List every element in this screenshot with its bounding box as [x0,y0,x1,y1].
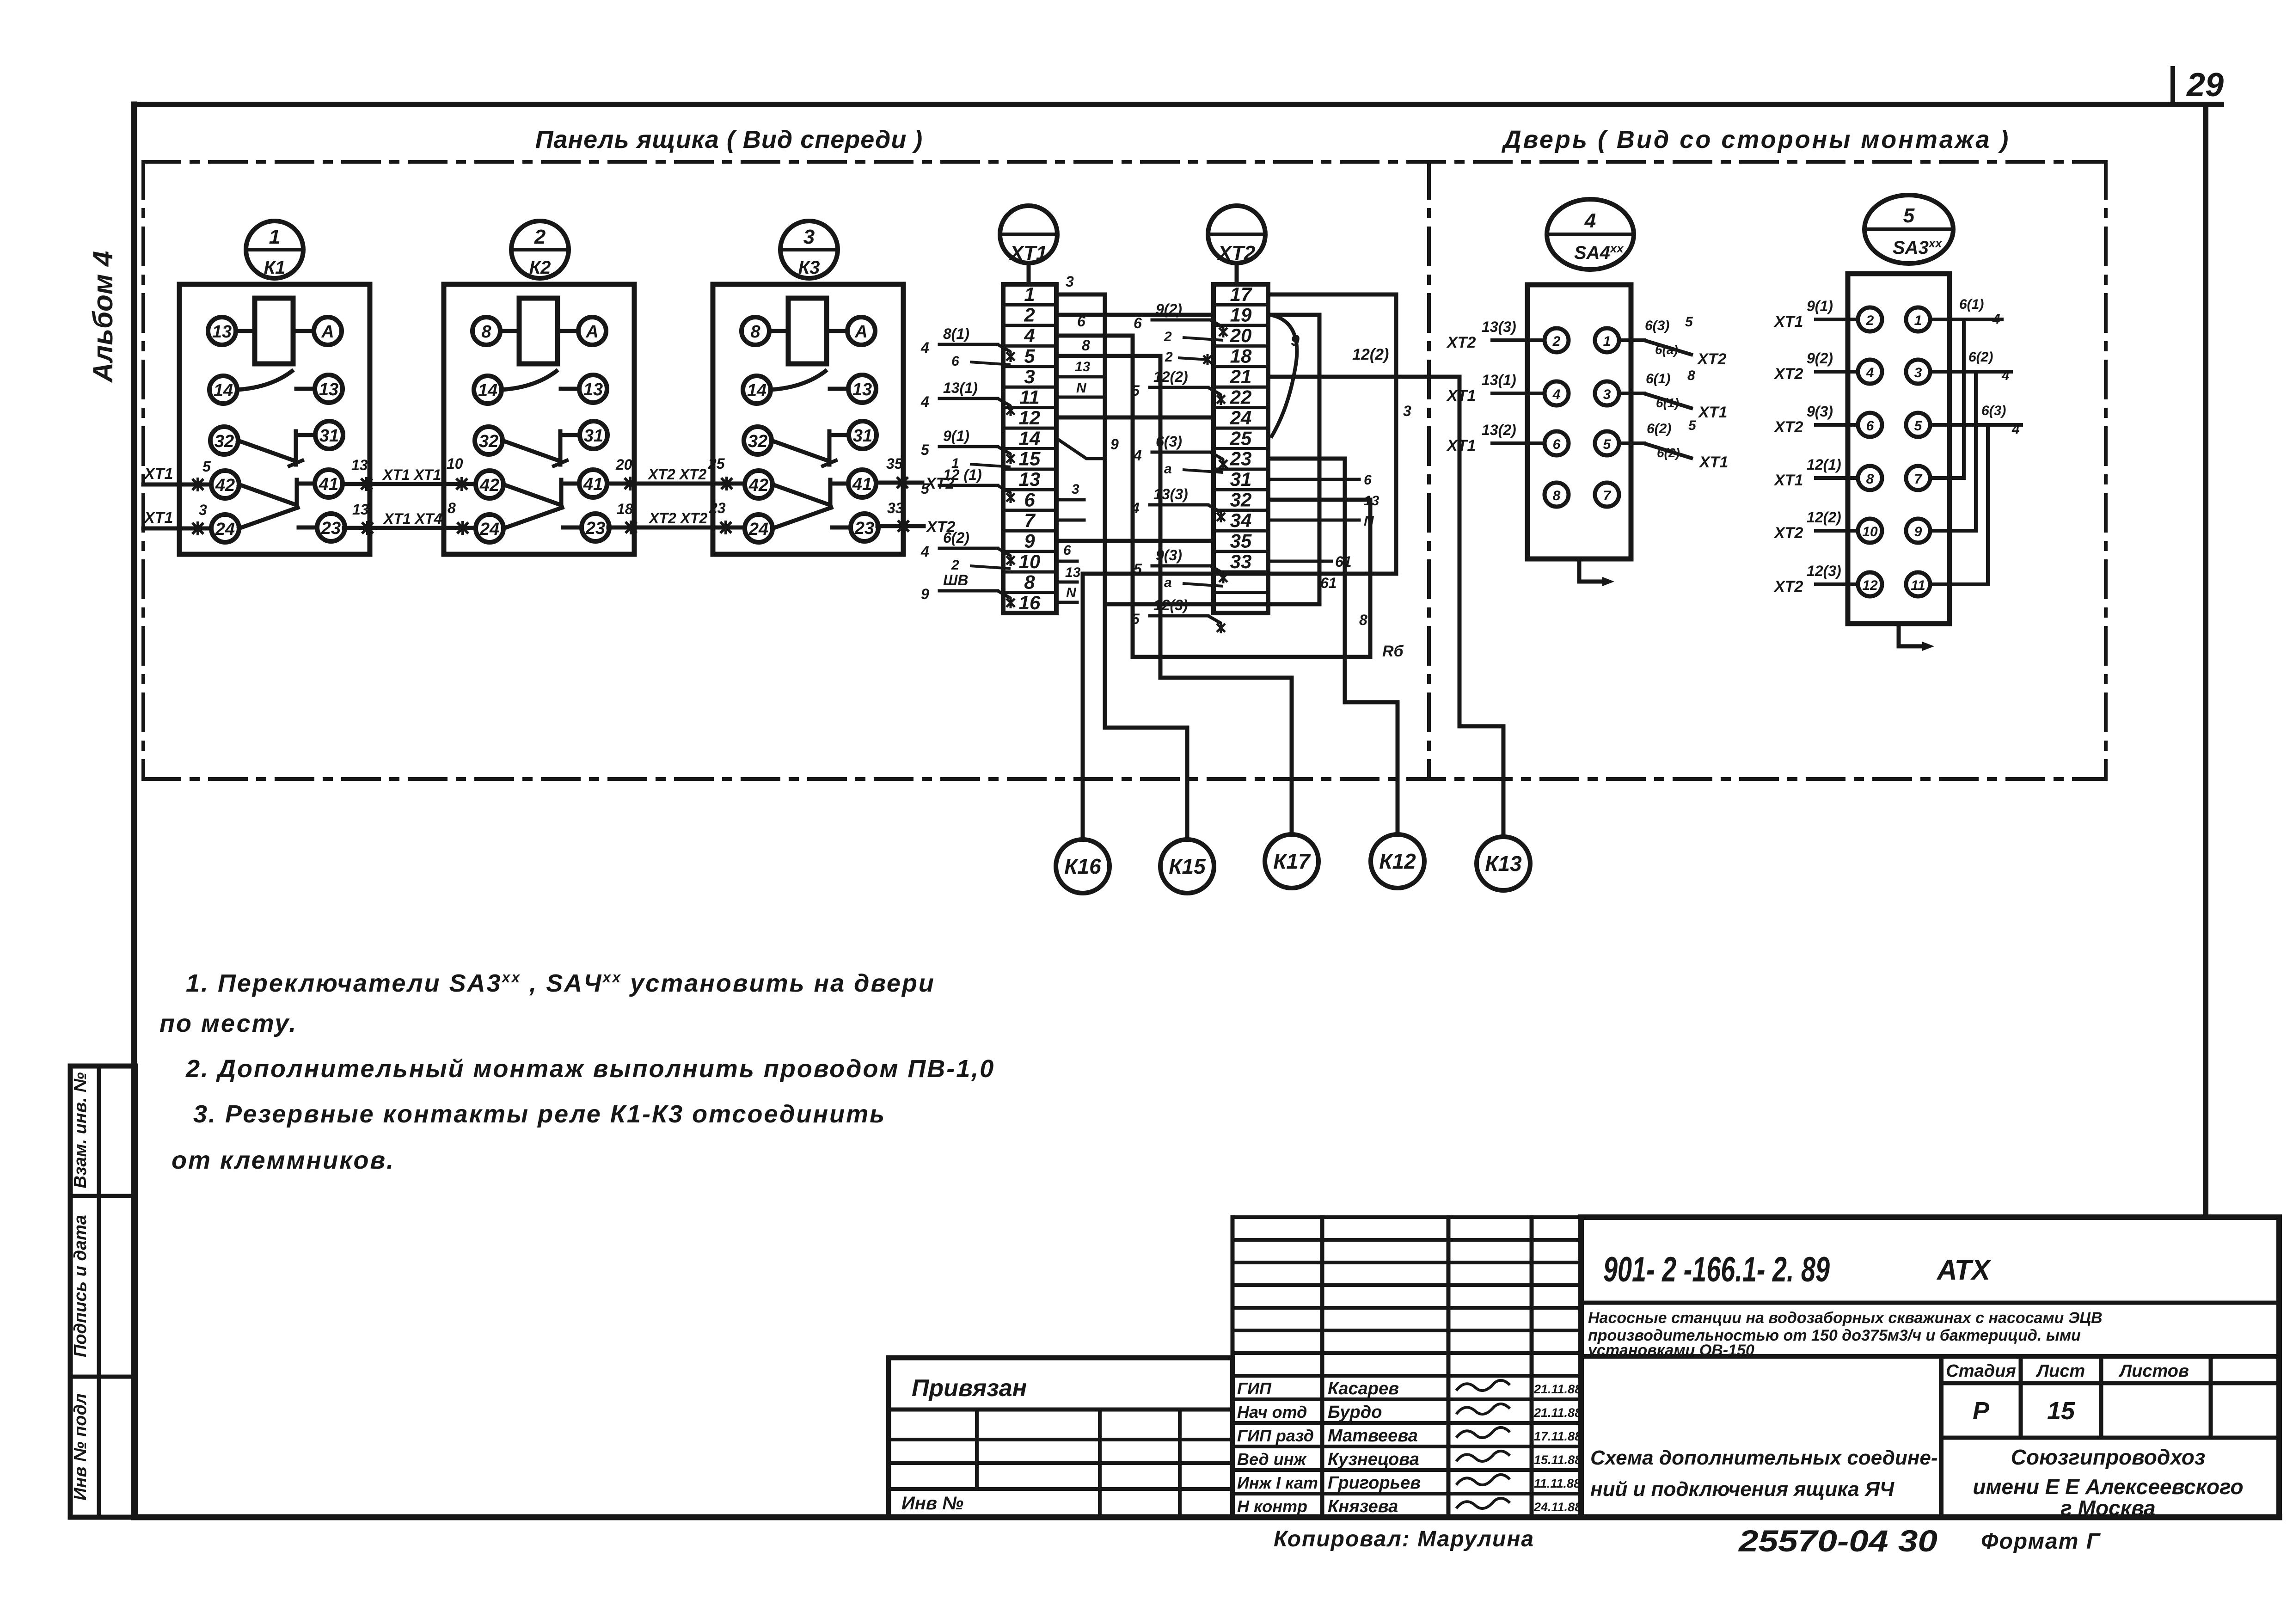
svg-text:6: 6 [1063,543,1071,558]
svg-text:4: 4 [2001,368,2010,383]
svg-text:3: 3 [1914,365,1922,380]
svg-text:8: 8 [1024,571,1035,593]
svg-text:Взам. инв. №: Взам. инв. № [71,1072,90,1189]
svg-text:ХТ2 ХТ2: ХТ2 ХТ2 [647,466,706,483]
svg-text:20: 20 [1230,325,1252,346]
svg-text:3. Резервные контакты рел: 3. Резервные контакты реле К1-К3 отсоеди… [193,1100,886,1128]
svg-text:901- 2 -166.1- 2. 89: 901- 2 -166.1- 2. 89 [1603,1250,1830,1289]
svg-text:по месту.: по месту. [159,1010,297,1037]
svg-text:32: 32 [215,432,234,451]
svg-text:Касарев: Касарев [1328,1379,1399,1398]
svg-text:35: 35 [1230,530,1252,552]
svg-text:2: 2 [1024,304,1035,326]
svg-text:Дверь ( Вид со стороны мон: Дверь ( Вид со стороны монтажа ) [1502,126,2011,153]
svg-text:33: 33 [1230,551,1252,572]
svg-text:К3: К3 [798,257,820,278]
svg-text:1. Переключатели SA3хх , SA: 1. Переключатели SA3хх , SAЧхх установит… [186,969,935,997]
svg-text:8: 8 [1687,368,1695,383]
svg-text:12(2): 12(2) [1807,509,1841,526]
svg-text:ХТ2: ХТ2 [1773,578,1803,595]
svg-text:24: 24 [748,520,768,539]
svg-text:1: 1 [1914,313,1922,328]
svg-text:АТХ: АТХ [1936,1254,1992,1286]
svg-text:Князева: Князева [1328,1497,1398,1516]
svg-text:8: 8 [1082,337,1090,354]
svg-text:6(3): 6(3) [1645,318,1669,333]
svg-text:18: 18 [617,501,633,517]
svg-text:6(3): 6(3) [1981,403,2006,418]
svg-text:ХТ1: ХТ1 [143,465,173,483]
svg-text:24.11.88: 24.11.88 [1533,1500,1582,1514]
svg-text:Матвеева: Матвеева [1328,1426,1418,1446]
svg-text:установками ОВ-150: установками ОВ-150 [1587,1342,1754,1359]
svg-text:41: 41 [852,475,872,494]
svg-text:К2: К2 [529,257,551,278]
svg-text:13: 13 [583,380,603,399]
svg-text:9(1): 9(1) [943,428,969,444]
svg-text:9: 9 [1914,524,1922,539]
svg-text:Подпись и дата: Подпись и дата [71,1215,90,1357]
svg-text:от клеммников.: от клеммников. [172,1146,395,1174]
svg-text:Н контр: Н контр [1237,1497,1307,1516]
svg-text:9: 9 [1291,332,1300,349]
svg-text:21.11.88: 21.11.88 [1533,1406,1582,1420]
svg-text:11: 11 [1911,578,1925,593]
svg-text:13(1): 13(1) [1482,372,1516,388]
svg-text:61: 61 [1320,575,1337,591]
svg-text:4: 4 [920,393,929,410]
svg-text:15.11.88: 15.11.88 [1534,1453,1582,1467]
svg-text:8: 8 [1359,612,1367,628]
svg-text:12(2): 12(2) [1352,346,1389,363]
svg-text:31: 31 [853,426,872,446]
svg-text:Союзгипроводхоз: Союзгипроводхоз [2011,1445,2206,1469]
svg-text:2: 2 [1164,329,1172,344]
svg-text:6(2): 6(2) [943,529,969,546]
svg-text:а: а [1164,575,1172,590]
svg-text:4: 4 [920,339,929,356]
svg-text:24: 24 [1230,407,1252,429]
svg-text:Насосные станции на водозаборн: Насосные станции на водозаборных скважин… [1588,1309,2103,1327]
svg-text:Нач отд: Нач отд [1237,1403,1307,1422]
svg-text:А: А [321,322,334,342]
svg-text:1: 1 [1024,283,1035,305]
svg-text:имени Е Е Алексеевского: имени Е Е Алексеевского [1973,1475,2243,1499]
svg-text:8: 8 [448,500,456,516]
svg-text:6(2): 6(2) [1657,446,1680,460]
svg-text:К17: К17 [1273,849,1311,873]
svg-text:13: 13 [1075,359,1091,374]
svg-text:4: 4 [920,543,929,560]
svg-text:К15: К15 [1169,854,1206,878]
svg-text:Инв №: Инв № [901,1493,963,1514]
svg-text:Р: Р [1973,1397,1990,1425]
svg-text:ХТ1: ХТ1 [1446,437,1476,454]
svg-text:13: 13 [351,457,368,473]
svg-text:Инв № подл: Инв № подл [71,1393,90,1500]
svg-text:3: 3 [803,226,815,248]
svg-text:5: 5 [1603,437,1612,452]
svg-text:Панель ящика ( Вид спереди ): Панель ящика ( Вид спереди ) [535,126,923,153]
svg-text:ХТ1: ХТ1 [1773,313,1803,331]
svg-text:12: 12 [1019,407,1041,429]
svg-text:21: 21 [1230,366,1252,387]
svg-text:41: 41 [583,475,603,494]
svg-text:ХТ1: ХТ1 [1446,387,1476,404]
svg-text:23: 23 [709,500,726,516]
svg-text:3: 3 [1066,273,1074,290]
svg-text:6: 6 [1024,489,1035,511]
svg-text:9(3): 9(3) [1807,403,1833,420]
svg-text:3: 3 [1403,403,1411,419]
svg-text:3: 3 [1072,482,1079,497]
svg-text:К13: К13 [1485,852,1522,876]
svg-text:11: 11 [1019,386,1040,408]
svg-text:15: 15 [1019,448,1041,470]
svg-text:13: 13 [212,322,232,342]
svg-text:Стадия: Стадия [1946,1361,2016,1381]
svg-text:5: 5 [921,480,930,497]
svg-text:К1: К1 [264,257,286,278]
svg-text:6: 6 [951,354,959,369]
svg-text:Формат Г: Формат Г [1981,1529,2101,1554]
svg-text:Привязан: Привязан [912,1375,1027,1402]
svg-text:12(3): 12(3) [1807,563,1841,579]
svg-text:29: 29 [2186,67,2224,104]
svg-text:13: 13 [352,501,369,518]
svg-text:2. Дополнительный монтаж в: 2. Дополнительный монтаж выполнить прово… [185,1055,995,1083]
svg-text:3: 3 [1024,366,1035,387]
svg-text:13: 13 [1065,565,1081,580]
svg-text:К16: К16 [1064,854,1101,878]
svg-text:К12: К12 [1379,849,1416,873]
svg-text:ХТ2: ХТ2 [1773,524,1803,542]
svg-text:Григорьев: Григорьев [1328,1473,1421,1493]
svg-text:25: 25 [1230,427,1252,449]
svg-text:Кузнецова: Кузнецова [1328,1450,1419,1469]
svg-text:42: 42 [479,476,499,495]
svg-text:23: 23 [585,519,605,538]
svg-text:35: 35 [886,455,903,472]
svg-text:31: 31 [584,426,603,446]
svg-text:13: 13 [852,380,872,399]
svg-text:24: 24 [479,520,499,539]
svg-text:8(1): 8(1) [943,325,969,342]
svg-text:Схема дополнительных соедине-: Схема дополнительных соедине- [1590,1446,1938,1469]
svg-text:20: 20 [615,456,632,473]
svg-text:2: 2 [534,226,546,248]
svg-text:9(1): 9(1) [1807,298,1833,314]
svg-text:10: 10 [1019,551,1041,572]
svg-text:3: 3 [1603,387,1611,402]
svg-text:32: 32 [479,432,498,451]
svg-text:18: 18 [1230,345,1252,367]
svg-text:ХТ2: ХТ2 [1697,350,1726,368]
svg-text:6: 6 [1553,437,1561,452]
svg-text:ХТ1 ХТ4: ХТ1 ХТ4 [383,510,442,527]
svg-text:6(1): 6(1) [1646,371,1670,386]
svg-text:5: 5 [921,441,930,458]
svg-text:N: N [1364,514,1374,529]
svg-text:ХТ1 ХТ1: ХТ1 ХТ1 [382,466,441,483]
svg-text:12: 12 [1862,578,1878,593]
svg-text:Копировал: Марулина: Копировал: Марулина [1274,1527,1534,1551]
svg-text:N: N [1066,585,1077,601]
svg-text:А: А [854,322,867,342]
svg-text:А: А [585,322,598,342]
svg-text:9: 9 [1110,436,1119,453]
svg-text:42: 42 [215,476,235,495]
svg-text:9: 9 [921,586,929,602]
svg-text:ний и подключения ящика ЯЧ: ний и подключения ящика ЯЧ [1590,1478,1894,1501]
svg-text:6(1): 6(1) [1959,297,1984,312]
svg-text:4: 4 [1024,325,1035,346]
svg-text:17.11.88: 17.11.88 [1534,1429,1582,1443]
svg-text:4: 4 [1866,365,1874,380]
svg-text:14: 14 [1019,427,1041,449]
svg-text:5: 5 [1024,345,1035,367]
svg-text:Инж I кат: Инж I кат [1237,1473,1318,1492]
svg-text:2: 2 [951,558,959,573]
svg-text:ХТ2: ХТ2 [1446,334,1476,351]
svg-text:14: 14 [478,381,497,400]
svg-text:8: 8 [1866,472,1874,487]
svg-text:Лист: Лист [2035,1361,2085,1381]
svg-text:2: 2 [1165,349,1173,365]
svg-text:12(1): 12(1) [1807,456,1841,473]
svg-text:9: 9 [1024,530,1035,552]
svg-text:ХТ2: ХТ2 [1773,418,1803,436]
svg-text:61: 61 [1335,553,1352,570]
svg-text:ХТ1: ХТ1 [1773,472,1803,489]
svg-text:17: 17 [1230,283,1252,305]
svg-text:12 (1): 12 (1) [943,466,982,483]
svg-text:ХТ1: ХТ1 [1698,453,1728,471]
svg-text:7: 7 [1024,509,1036,531]
svg-text:6(1): 6(1) [1656,396,1679,410]
svg-text:ХТ1: ХТ1 [143,509,173,527]
svg-text:5: 5 [202,458,211,475]
svg-text:6: 6 [1134,315,1142,331]
svg-text:9(2): 9(2) [1807,350,1833,367]
svg-text:ШВ: ШВ [943,572,968,588]
svg-text:4: 4 [1584,209,1596,232]
svg-text:13(3): 13(3) [1482,319,1516,335]
svg-text:6(2): 6(2) [1647,421,1671,436]
svg-text:ГИП: ГИП [1237,1379,1272,1398]
svg-text:5: 5 [1914,418,1923,434]
svg-text:10: 10 [1862,524,1878,539]
svg-text:6: 6 [1364,472,1372,488]
svg-text:2: 2 [1552,334,1561,349]
svg-text:ГИП разд: ГИП разд [1237,1426,1314,1445]
svg-text:5: 5 [1685,314,1693,330]
svg-text:13: 13 [1364,493,1379,509]
svg-text:14: 14 [214,381,233,400]
svg-text:5: 5 [1688,418,1697,433]
svg-text:13: 13 [319,380,338,399]
svg-text:8: 8 [750,322,760,342]
svg-text:14: 14 [747,381,766,400]
svg-text:31: 31 [319,426,339,446]
svg-text:4: 4 [1992,312,2000,327]
svg-text:32: 32 [1230,489,1252,511]
svg-text:23: 23 [1230,448,1252,470]
svg-text:Вед инж: Вед инж [1237,1450,1307,1469]
svg-text:22: 22 [1230,386,1252,408]
svg-text:23: 23 [321,519,341,538]
svg-text:13(1): 13(1) [943,380,978,396]
svg-text:Листов: Листов [2118,1361,2189,1381]
svg-text:4: 4 [1552,387,1561,402]
svg-text:1: 1 [269,226,280,248]
svg-text:41: 41 [319,475,338,494]
svg-text:а: а [1164,461,1172,477]
svg-text:10: 10 [447,455,463,472]
svg-text:32: 32 [748,432,767,451]
svg-text:6: 6 [1077,313,1085,330]
svg-text:5: 5 [1903,204,1915,227]
svg-text:21.11.88: 21.11.88 [1533,1382,1582,1396]
svg-text:19: 19 [1230,304,1252,326]
svg-text:7: 7 [1603,488,1612,503]
svg-text:16: 16 [1019,592,1041,613]
svg-text:3: 3 [199,502,207,518]
svg-text:11.11.88: 11.11.88 [1534,1477,1581,1490]
svg-text:8: 8 [1553,488,1561,503]
svg-text:13(2): 13(2) [1482,422,1516,438]
svg-text:1: 1 [1603,334,1611,349]
svg-text:г Москва: г Москва [2060,1496,2155,1520]
svg-text:Альбом 4: Альбом 4 [87,251,118,384]
svg-text:6: 6 [1866,418,1874,434]
svg-text:8: 8 [481,322,491,342]
svg-text:N: N [1076,380,1087,396]
svg-text:23: 23 [854,519,874,538]
svg-text:25: 25 [708,455,725,472]
svg-text:25570-04 30: 25570-04 30 [1738,1524,1938,1558]
svg-text:24: 24 [215,520,235,539]
svg-text:31: 31 [1230,468,1252,490]
svg-text:4: 4 [2011,422,2020,437]
svg-text:ХТ1: ХТ1 [1698,404,1727,421]
svg-text:6(2): 6(2) [1968,349,1993,365]
svg-text:33: 33 [887,500,904,516]
svg-text:42: 42 [748,476,768,495]
svg-text:15: 15 [2047,1397,2075,1425]
svg-text:13: 13 [1019,468,1041,490]
svg-text:6(а): 6(а) [1655,343,1678,357]
svg-text:7: 7 [1914,472,1923,487]
svg-text:34: 34 [1230,509,1252,531]
svg-text:ХТ2 ХТ2: ХТ2 ХТ2 [648,510,707,527]
svg-text:Бурдо: Бурдо [1328,1403,1382,1422]
svg-text:2: 2 [1866,313,1874,328]
svg-text:ХТ2: ХТ2 [1773,365,1803,383]
svg-text:Rб: Rб [1382,643,1404,660]
